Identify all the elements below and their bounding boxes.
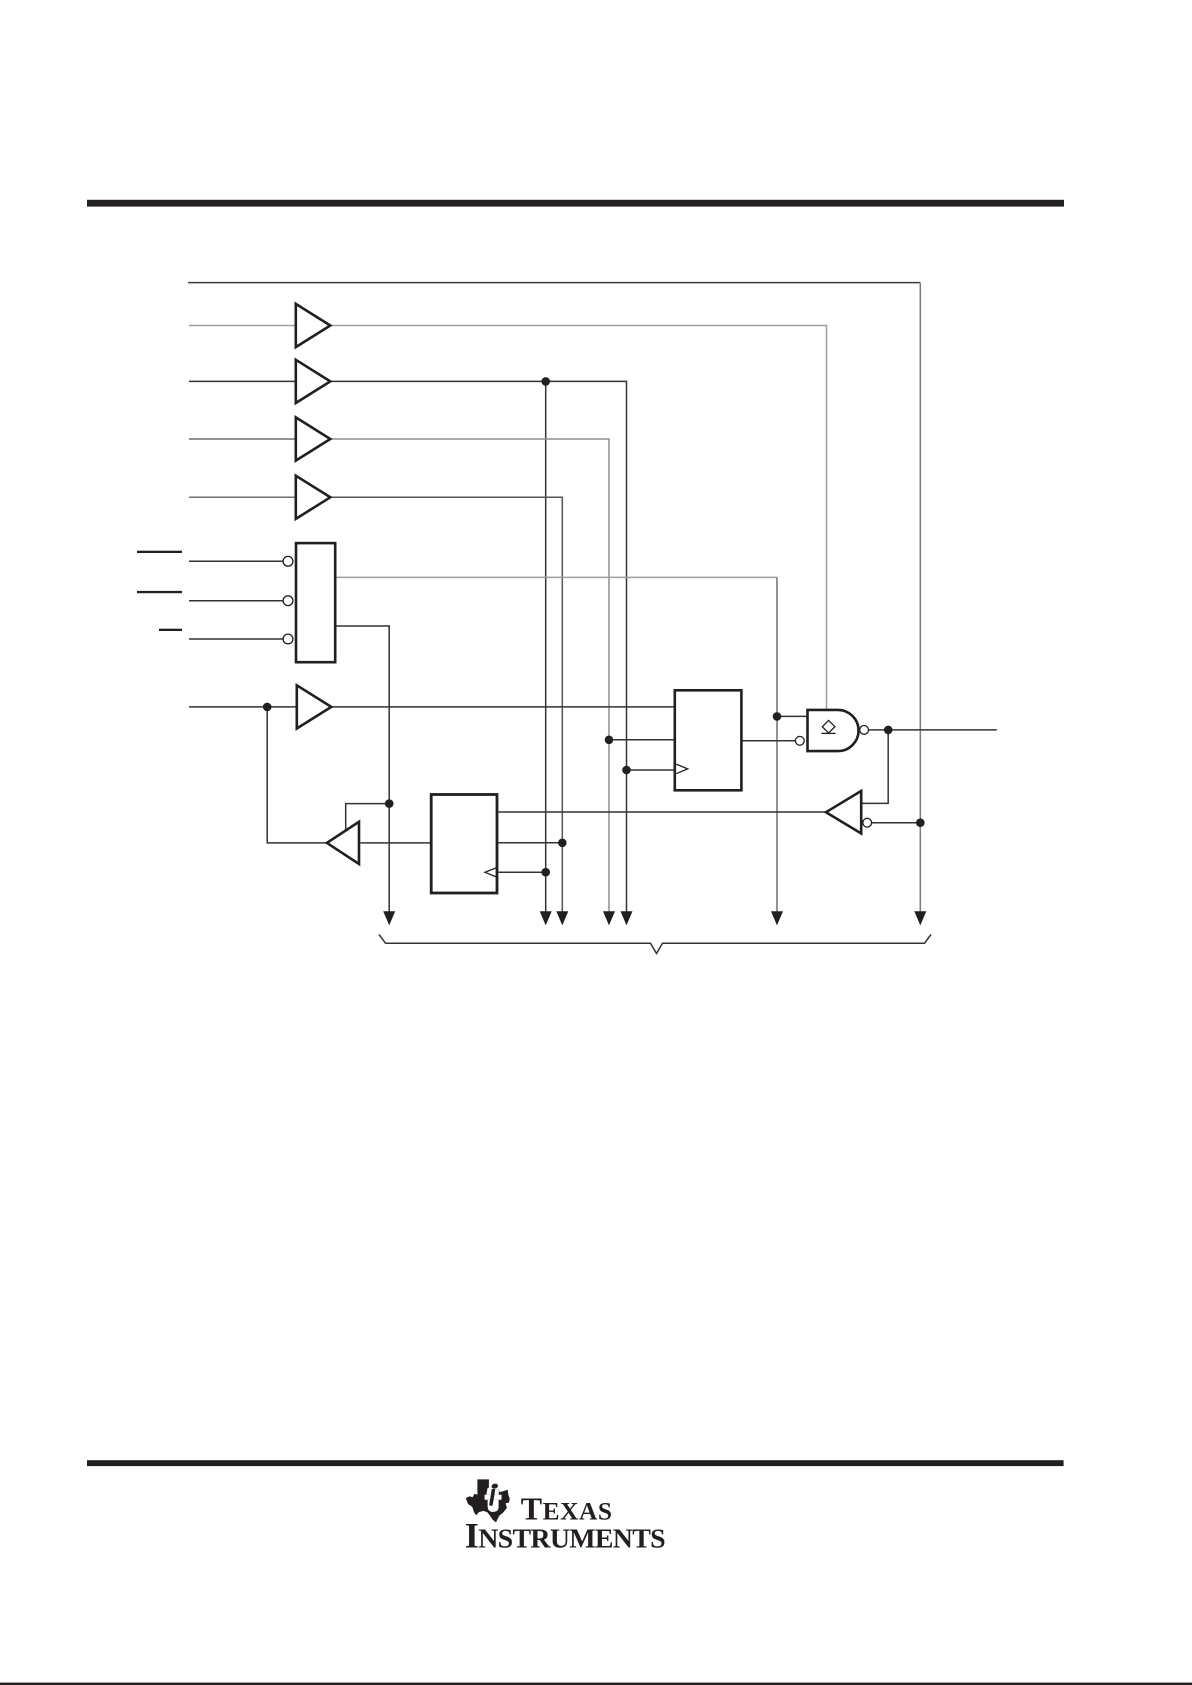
- wire NAND output: [868, 729, 997, 731]
- wire inverter U3 side tap jog: [346, 804, 390, 830]
- NAND gate U1 (open-drain): [808, 710, 859, 751]
- wire NAND input from node: [777, 715, 807, 717]
- U1 diamond underline: [822, 732, 836, 734]
- junction dot U3 tap node: [385, 799, 394, 808]
- wire decoder input 2: [189, 600, 283, 602]
- wire inverter U2 output to FF2: [498, 811, 825, 813]
- wire top input net: [188, 282, 920, 284]
- U2 input bubble: [863, 818, 872, 827]
- FF2 clock caret: [485, 868, 497, 878]
- label overbar 2: [137, 591, 182, 593]
- label overbar 1: [137, 551, 182, 553]
- wire top net vertical drop: [919, 283, 921, 912]
- wire decoder input 3: [189, 638, 283, 640]
- wire buffer A1 input: [189, 325, 295, 327]
- wire buffer A3 output: [332, 439, 610, 912]
- junction dot FF1 data node: [605, 736, 614, 745]
- junction dot NAND output node: [884, 726, 893, 735]
- footer rule: [87, 1460, 1064, 1466]
- arrow to bus (A2 branch): [540, 911, 552, 925]
- U1 open-drain diamond symbol: [822, 720, 835, 733]
- wire buffer A1 output to NAND top: [332, 326, 827, 710]
- brace under arrows: [379, 935, 931, 954]
- buffer A2: [296, 360, 331, 403]
- arrow to bus (A3): [603, 911, 615, 925]
- flip-flop FF2: [431, 795, 497, 894]
- decoder input bubble 3: [283, 634, 293, 644]
- junction dot on A5 input: [263, 703, 272, 712]
- wire inverter U2 bubble input from vertical: [872, 822, 921, 824]
- arrow to bus (A4): [556, 911, 568, 925]
- decoder block U4: [296, 543, 335, 662]
- label overbar 3: [159, 629, 182, 631]
- buffer A5: [297, 685, 332, 728]
- junction dot NAND input node: [773, 712, 782, 721]
- arrow to bus (A2): [621, 911, 633, 925]
- arrow to bus (top net): [914, 911, 926, 925]
- arrow to bus (decoder out 1): [771, 911, 783, 925]
- wire FF1 output to NAND bubble: [742, 740, 795, 742]
- top rule: [87, 200, 1064, 207]
- arrow to bus (decoder out 2): [383, 911, 395, 925]
- wire decoder output 1 to vertical: [337, 576, 778, 578]
- wire inverter U3 output feedback to buffer A5 input: [267, 707, 327, 843]
- wire FF1 clock input from node: [627, 769, 675, 771]
- flip-flop FF1: [675, 690, 742, 790]
- wire buffer A5 output to FF1: [332, 706, 674, 708]
- junction dot FF2 data node: [558, 839, 567, 848]
- U1 output bubble: [860, 726, 869, 735]
- wire NAND output feedback jog to inverter U2: [862, 730, 888, 804]
- decoder input bubble 2: [283, 596, 293, 606]
- junction dot U2 bubble node: [916, 818, 925, 827]
- buffer A1: [296, 304, 331, 347]
- wire buffer A5 input: [189, 706, 296, 708]
- bottom page edge line: [0, 1683, 1192, 1685]
- inverter U3 (points left): [327, 822, 359, 864]
- TI logo Texas emblem: [466, 1479, 510, 1522]
- inverter U2 (points left): [826, 791, 861, 834]
- decoder input bubble 1: [283, 556, 293, 566]
- wire buffer A3 input: [189, 438, 295, 440]
- wire buffer A2 input: [189, 380, 295, 382]
- wire decoder input 1: [189, 560, 283, 562]
- buffer A4: [296, 476, 331, 519]
- wire buffer A2 output: [332, 381, 627, 911]
- U1 input bubble: [795, 736, 804, 745]
- junction dot on A2 output: [541, 377, 550, 386]
- wire FF2 input from buffer A4 branch: [498, 842, 562, 844]
- buffer A3: [296, 417, 331, 460]
- wire FF2 output to inverter U3 input: [360, 842, 430, 844]
- wire FF2 clock from buffer A2 branch: [498, 871, 545, 873]
- junction dot FF2 clock node: [541, 868, 550, 877]
- wire buffer A4 output: [332, 497, 563, 911]
- FF1 clock caret: [676, 764, 688, 774]
- wire FF1 data input from node: [609, 739, 674, 741]
- wire vertical from decoder output 1: [776, 577, 778, 911]
- junction dot FF1 clock node: [622, 766, 631, 775]
- wire branch from A2 output down: [545, 381, 547, 911]
- wire decoder output 2 down: [337, 626, 390, 912]
- wire buffer A4 input: [189, 496, 295, 498]
